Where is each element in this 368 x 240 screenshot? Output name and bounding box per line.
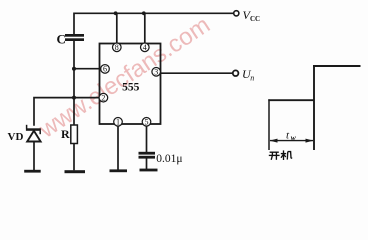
wire: Vcc top rail <box>74 12 233 14</box>
label Vcc <box>243 8 261 23</box>
wire: VD branch / node A to pin 2 <box>34 98 100 126</box>
resistor R <box>71 125 78 144</box>
svg-text:R: R <box>61 127 70 141</box>
ji character: wood radical <box>281 153 286 155</box>
junction: node A / pin6 wire <box>72 67 76 71</box>
pin 5 <box>142 118 151 127</box>
waveform: rising edge / right extension bar <box>313 65 315 150</box>
pin 8 <box>113 43 122 52</box>
wire: pin 5 to capacitor 0.01u <box>146 126 148 153</box>
svg-text:4: 4 <box>143 43 147 52</box>
svg-text:VD: VD <box>8 131 24 143</box>
svg-text:6: 6 <box>103 65 107 74</box>
svg-text:CC: CC <box>250 15 260 23</box>
svg-text:n: n <box>250 74 254 83</box>
pin 3 <box>152 68 161 77</box>
wire: capacitor C branch from rail down to top plate <box>73 13 75 35</box>
svg-text:2: 2 <box>101 93 105 102</box>
wire: VD anode to ground <box>33 141 35 170</box>
waveform: left extension bar <box>268 99 270 150</box>
wire: pin 3 to output terminal <box>160 72 233 74</box>
wire: R bottom to ground <box>73 143 75 170</box>
waveform: high level segment <box>313 65 361 67</box>
waveform: low level segment <box>268 99 314 101</box>
ground: pin 1 <box>110 169 128 172</box>
wire: node A to pin 6 <box>74 68 101 70</box>
pin 6 <box>101 65 110 74</box>
svg-text:0.01μ: 0.01μ <box>156 153 182 165</box>
IC U1: 555 timer box <box>100 44 161 125</box>
kai character <box>270 151 279 153</box>
svg-text:1: 1 <box>116 118 120 127</box>
terminal: Vcc <box>234 11 239 16</box>
svg-text:8: 8 <box>115 43 119 52</box>
label Un <box>242 67 254 82</box>
ground: C2 <box>140 169 158 172</box>
wire: pin 1 to ground <box>117 126 119 170</box>
ground: R <box>65 170 86 173</box>
junction: rail / pin8 <box>114 11 118 15</box>
junction: node A / pin2 wire <box>72 96 76 100</box>
label kaiji (power-on) hand-drawn CJK strokes <box>269 150 292 160</box>
wire: capacitor 0.01u to ground <box>146 158 148 169</box>
pin 1 <box>114 118 123 127</box>
svg-text:555: 555 <box>122 82 140 94</box>
diode VD (zener) <box>26 125 41 142</box>
svg-text:C: C <box>57 32 66 47</box>
svg-text:3: 3 <box>154 68 158 77</box>
terminal: output Un <box>233 70 239 76</box>
pin 2 <box>99 93 108 102</box>
wire: pin 8 to Vcc rail <box>116 13 118 44</box>
capacitor C2 0.01u plates <box>139 152 156 159</box>
ground: VD <box>24 170 41 173</box>
junction: rail / pin4 <box>142 11 146 15</box>
ji character: table part <box>286 152 289 160</box>
label tw <box>286 129 297 142</box>
watermark www.elecfans.com <box>34 11 215 144</box>
pin 4 <box>141 43 150 52</box>
svg-text:5: 5 <box>145 118 149 127</box>
wire: node A vertical (C bottom plate to R top) <box>73 41 75 126</box>
capacitor C plates <box>65 34 84 41</box>
wire: pin 4 to Vcc rail <box>144 13 146 44</box>
dimension line tw with arrows <box>270 139 314 143</box>
